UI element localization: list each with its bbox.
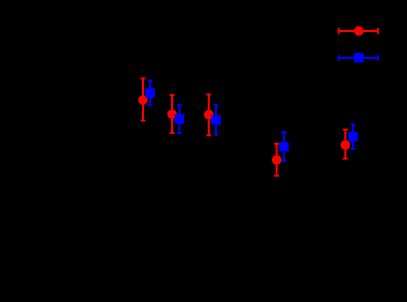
legend red sample xyxy=(339,28,378,34)
blue errorbar 1 xyxy=(148,81,153,106)
red point 4 xyxy=(272,155,282,165)
blue series markers xyxy=(145,88,357,151)
red point 2 xyxy=(167,109,177,119)
blue errorbar 2 xyxy=(177,105,182,133)
red errorbar 3 xyxy=(206,95,211,136)
red series error bars xyxy=(141,78,348,175)
blue point 1 xyxy=(145,88,155,98)
red point 3 xyxy=(204,110,214,120)
red point 1 xyxy=(138,95,148,105)
blue errorbar 3 xyxy=(214,105,219,135)
blue point 5 xyxy=(348,132,358,142)
blue point 2 xyxy=(175,114,185,124)
legend blue sample xyxy=(339,55,378,61)
blue point 4 xyxy=(279,142,289,152)
blue point 3 xyxy=(211,115,221,125)
red errorbar 1 xyxy=(141,78,146,120)
legend blue marker xyxy=(354,53,364,63)
legend red marker xyxy=(354,26,364,36)
red errorbar 4 xyxy=(274,144,279,176)
red errorbar 5 xyxy=(343,130,348,159)
red series markers xyxy=(138,95,350,165)
red point 5 xyxy=(341,140,351,150)
blue errorbar 5 xyxy=(351,124,356,148)
blue series error bars xyxy=(148,81,356,161)
blue errorbar 4 xyxy=(282,132,287,161)
red errorbar 2 xyxy=(170,95,175,133)
